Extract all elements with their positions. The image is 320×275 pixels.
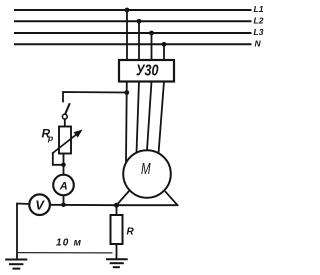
node junction ammeter to bus (61, 203, 66, 208)
wire voltmeter left to earth probe (17, 204, 29, 260)
svg-text:A: A (59, 180, 68, 192)
ammeter A (53, 175, 74, 196)
wire U1 output phase 1 to motor (125, 82, 128, 162)
wire tap from L1 to U1 (126, 10, 128, 60)
wire resistor bottom lead (116, 244, 118, 259)
wire U1 output neutral to motor (159, 82, 165, 154)
wire tap from L3 to U1 (151, 33, 153, 60)
svg-text:10 м: 10 м (56, 237, 82, 248)
resistor R body (111, 215, 123, 244)
node junction switch branch (124, 90, 129, 95)
wire resistor top lead (116, 205, 118, 215)
node junction on L1 (125, 8, 130, 13)
wire L2 bus (15, 20, 251, 22)
motor M circle (123, 150, 171, 198)
wire N bus (15, 43, 251, 45)
wire bus / frame base to right vertex (117, 204, 178, 206)
svg-text:R: R (127, 227, 135, 238)
dimension line 10 m (18, 252, 113, 254)
wire tap from N to U1 (163, 44, 165, 60)
rheostat Rp body (59, 127, 71, 154)
svg-text:p: p (47, 133, 53, 143)
svg-text:У30: У30 (136, 63, 159, 80)
switch S1 contact circle (62, 114, 67, 119)
wire ammeter bottom lead (63, 195, 65, 205)
wire branch to switch (63, 92, 127, 102)
wire L3 bus (15, 32, 251, 34)
node junction on N (162, 42, 167, 47)
wire voltmeter right to bus (50, 204, 117, 206)
wire rheostat to ammeter jog (53, 153, 64, 165)
wire U1 output phase 3 to motor (147, 82, 152, 151)
svg-text:L2: L2 (254, 15, 264, 25)
switch S1 blade (65, 103, 70, 114)
motor mount left slant (117, 191, 130, 205)
wire rheostat bottom lead (63, 154, 65, 165)
svg-text:L1: L1 (254, 4, 264, 14)
svg-text:V: V (35, 197, 45, 212)
node junction rheostat jog (61, 163, 66, 168)
wire L1 bus (15, 9, 251, 11)
node junction on L2 (137, 19, 142, 24)
ground left (5, 260, 27, 269)
ground right (106, 259, 128, 267)
wire U1 output phase 2 to motor (137, 82, 140, 153)
svg-text:M: M (141, 161, 151, 178)
svg-text:L3: L3 (254, 27, 264, 37)
wire tap from L2 to U1 (138, 21, 140, 60)
RCD box U1 (119, 60, 174, 82)
node junction frame / resistor (114, 203, 119, 208)
rheostat Rp wiper arrow (53, 133, 79, 153)
wire switch to rheostat (64, 119, 66, 127)
motor mount right slant (165, 191, 178, 205)
node junction on L3 (149, 31, 154, 36)
voltmeter V (29, 194, 50, 215)
svg-text:N: N (255, 38, 262, 48)
wire ammeter top lead (63, 165, 65, 175)
